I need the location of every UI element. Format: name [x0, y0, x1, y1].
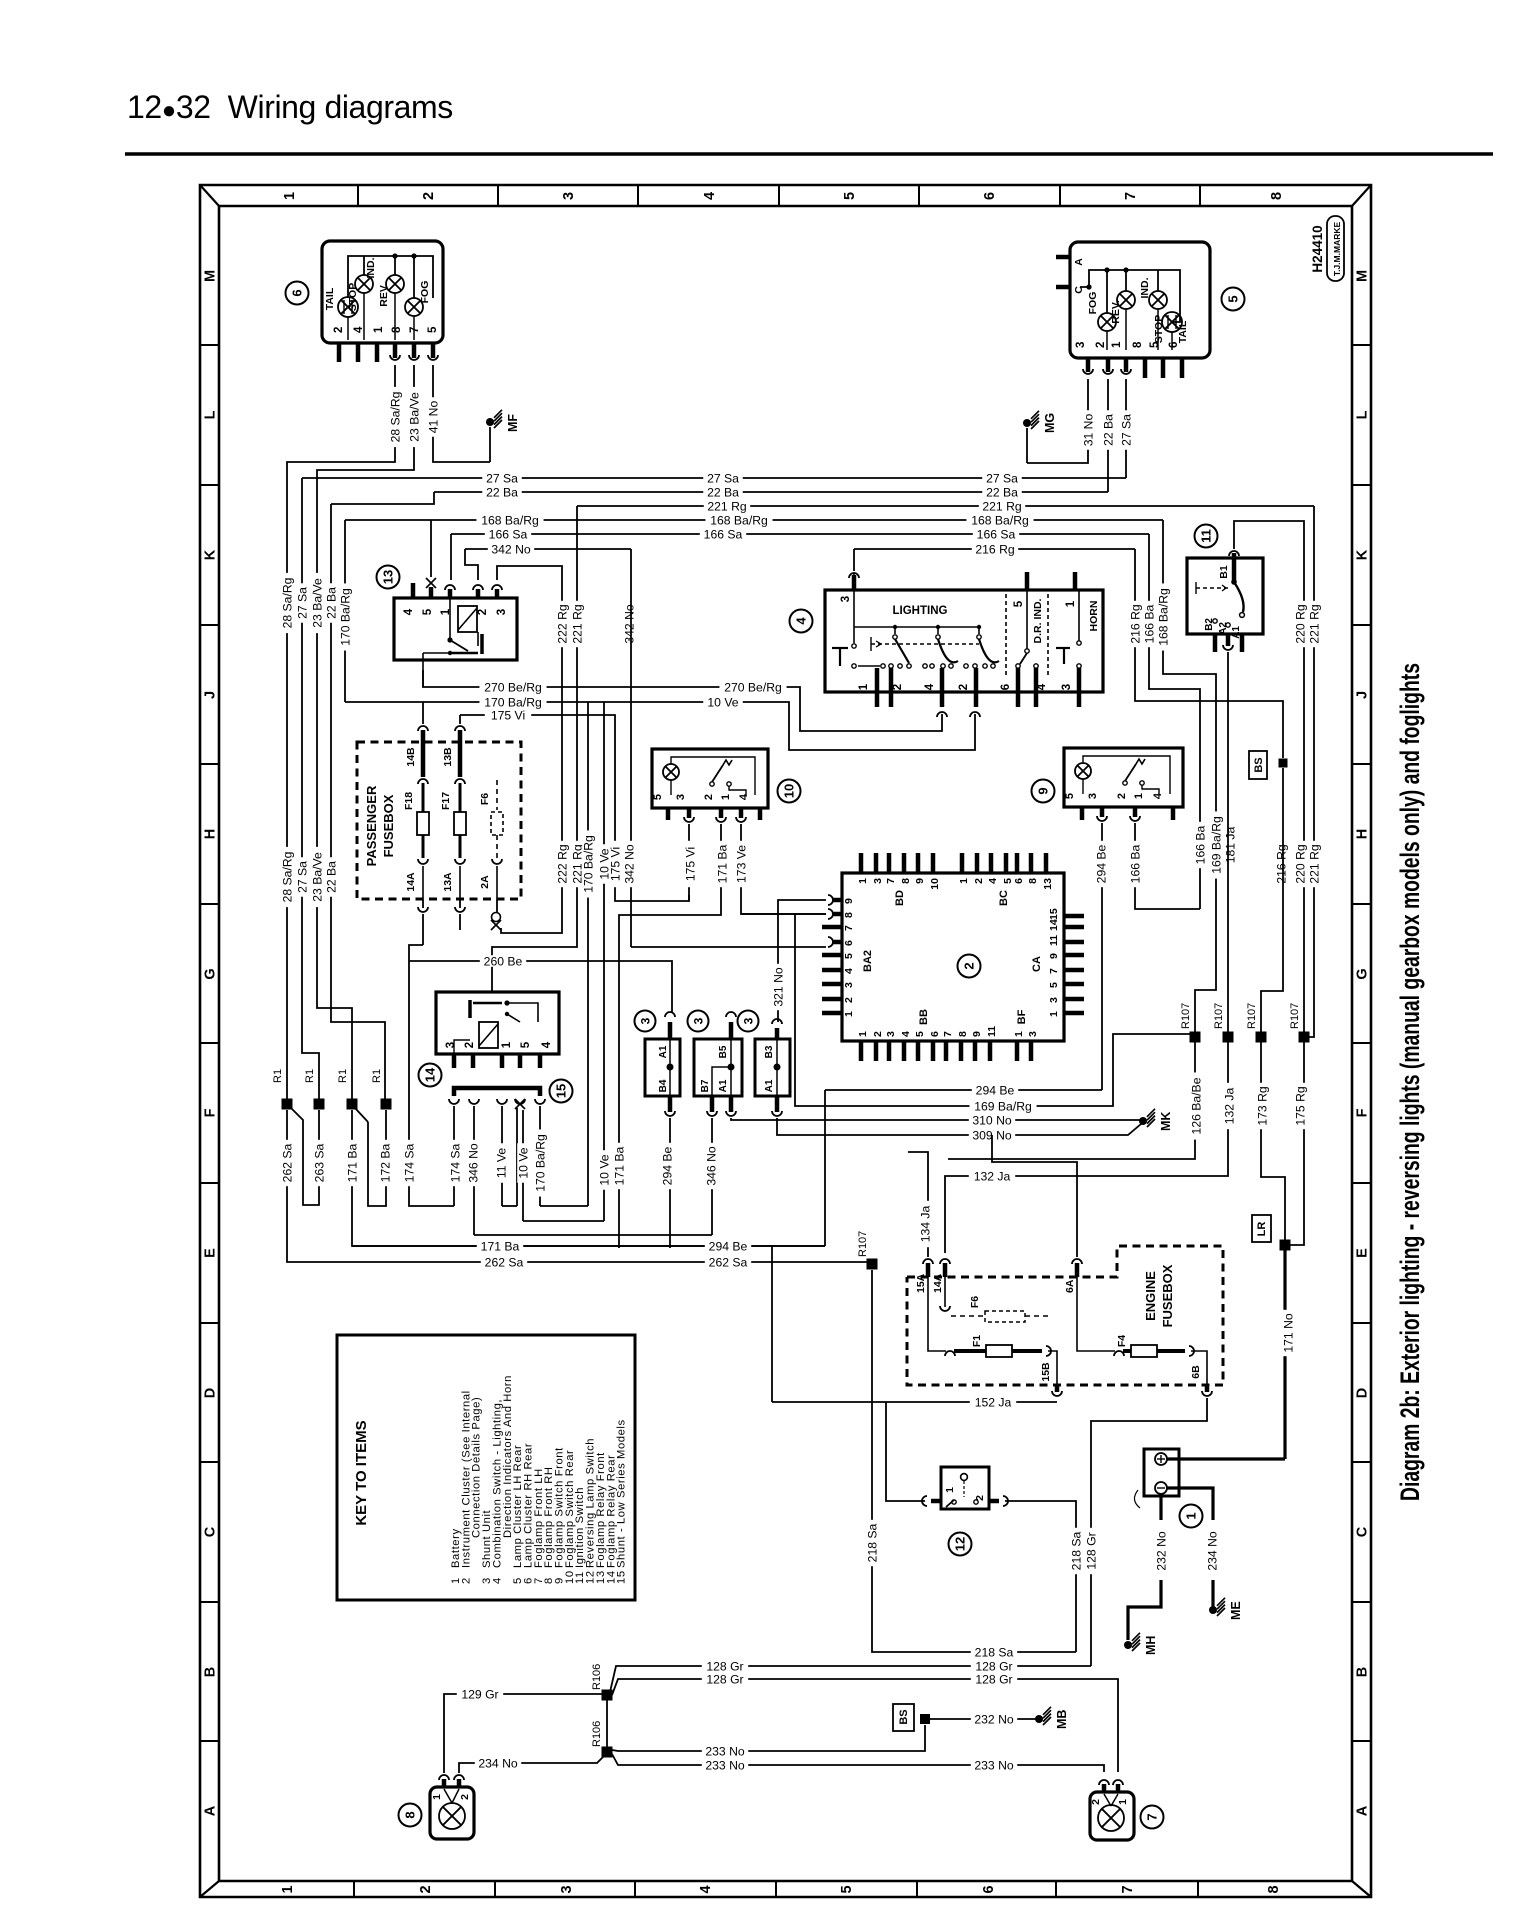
svg-text:BC: BC — [998, 890, 1010, 906]
svg-text:3: 3 — [692, 1017, 706, 1024]
left bundle labels lower — [281, 847, 293, 907]
wire 270 Be/Rg run — [423, 670, 942, 731]
svg-text:M: M — [1355, 270, 1371, 282]
item 7 pin stubs — [1102, 1784, 1107, 1792]
item 5 IND lamp — [1149, 291, 1167, 309]
R106 link wire — [606, 1697, 608, 1750]
svg-text:3: 3 — [496, 609, 508, 615]
wire 262 Sa from R1 a — [287, 1110, 872, 1262]
svg-text:169 Ba/Rg: 169 Ba/Rg — [1209, 816, 1223, 874]
svg-text:A1: A1 — [764, 1079, 775, 1092]
svg-text:B3: B3 — [764, 1045, 775, 1058]
svg-text:170 Ba/Rg: 170 Ba/Rg — [338, 588, 352, 646]
BS connector box lower — [893, 1704, 914, 1731]
svg-text:6: 6 — [982, 192, 998, 200]
svg-text:170 Ba/Rg: 170 Ba/Rg — [581, 835, 595, 893]
left bundle wire 22 Ba down — [331, 504, 385, 1100]
wire 27 Sa from item 5 pin 1 — [1125, 379, 1127, 478]
frame top scale ticks — [357, 185, 359, 206]
svg-text:BB: BB — [918, 1009, 930, 1025]
svg-text:342 No: 342 No — [491, 542, 531, 556]
wire 166 Sa run — [451, 533, 1149, 535]
svg-text:168 Ba/Rg: 168 Ba/Rg — [971, 513, 1029, 527]
svg-text:1: 1 — [958, 878, 970, 884]
svg-text:175 Vi: 175 Vi — [683, 847, 697, 881]
svg-text:STOP: STOP — [1153, 315, 1165, 343]
svg-text:22 Ba: 22 Ba — [324, 861, 338, 893]
item 1 circled number — [1180, 1505, 1203, 1528]
svg-text:MB: MB — [1055, 1710, 1069, 1729]
svg-text:2: 2 — [418, 1885, 434, 1893]
wire 232 No from battery negative stub — [1159, 1496, 1162, 1520]
svg-text:TAIL: TAIL — [1177, 320, 1189, 343]
svg-text:3: 3 — [639, 1017, 653, 1024]
wire 216 Rg run — [854, 548, 1135, 550]
svg-text:5: 5 — [422, 608, 434, 615]
item 12 pin stubs — [931, 1499, 941, 1504]
svg-text:4: 4 — [702, 192, 718, 200]
svg-text:13A: 13A — [442, 872, 454, 892]
svg-text:HORN: HORN — [1088, 601, 1100, 632]
svg-text:260 Be: 260 Be — [484, 954, 523, 968]
svg-text:3: 3 — [843, 982, 855, 988]
item 14 relay coil — [479, 1022, 498, 1048]
item 14 circled number — [419, 1064, 442, 1087]
svg-text:5: 5 — [843, 953, 855, 959]
svg-text:A: A — [203, 1805, 219, 1816]
engine fusebox 15A terminal — [926, 1263, 931, 1277]
wire 11 Ve loop — [502, 1205, 517, 1207]
svg-text:170 Ba/Rg: 170 Ba/Rg — [484, 695, 542, 709]
svg-text:221 Rg: 221 Rg — [1307, 604, 1321, 643]
svg-text:FOG: FOG — [1087, 292, 1099, 315]
engine fusebox dashed outline — [907, 1246, 1223, 1385]
svg-text:8: 8 — [957, 1031, 969, 1037]
wire 166 Ba down right side — [1149, 534, 1200, 909]
passenger fusebox dashed outline — [357, 742, 521, 899]
item 4 circled number — [790, 610, 813, 633]
svg-text:F6: F6 — [969, 1296, 981, 1308]
svg-text:T.J.M.MARKE: T.J.M.MARKE — [1332, 222, 1342, 277]
svg-text:270 Be/Rg: 270 Be/Rg — [724, 680, 782, 694]
svg-text:216 Rg: 216 Rg — [1274, 844, 1288, 883]
svg-text:4: 4 — [794, 617, 809, 625]
svg-text:4: 4 — [541, 1041, 553, 1048]
wire 128 Gr upper from R106 a — [610, 1666, 1091, 1692]
svg-text:22 Ba: 22 Ba — [1101, 414, 1115, 446]
shunt unit 3a circled number — [635, 1011, 656, 1032]
wire 234 No from battery negative — [1167, 1488, 1213, 1520]
svg-text:220 Rg: 220 Rg — [1293, 844, 1307, 883]
svg-text:2: 2 — [1095, 342, 1107, 348]
svg-text:4: 4 — [403, 608, 415, 615]
item 12 internals — [961, 1474, 968, 1481]
svg-text:342 No: 342 No — [622, 844, 636, 884]
svg-text:15: 15 — [1048, 908, 1060, 920]
svg-text:169 Ba/Rg: 169 Ba/Rg — [974, 1099, 1032, 1113]
svg-text:3: 3 — [561, 192, 577, 200]
item 6 TAIL lamp — [338, 297, 358, 317]
svg-text:129 Gr: 129 Gr — [461, 1687, 498, 1701]
svg-text:262 Sa: 262 Sa — [709, 1255, 748, 1269]
svg-text:321 No: 321 No — [771, 967, 785, 1007]
wire 263 Sa labels — [281, 1140, 293, 1186]
svg-text:FOG: FOG — [419, 281, 431, 304]
svg-text:128 Gr: 128 Gr — [975, 1659, 1012, 1673]
svg-text:3: 3 — [872, 878, 884, 884]
svg-text:233 No: 233 No — [705, 1744, 745, 1758]
svg-text:2: 2 — [974, 1495, 986, 1501]
svg-text:8: 8 — [403, 1811, 418, 1818]
svg-text:1: 1 — [858, 683, 870, 690]
svg-text:126 Ba/Be: 126 Ba/Be — [1189, 1077, 1203, 1134]
item 12 circled number — [949, 1533, 972, 1556]
item 4 dashed link — [871, 643, 979, 645]
svg-text:27 Sa: 27 Sa — [986, 471, 1018, 485]
svg-text:7: 7 — [843, 925, 855, 931]
connector R107 b — [1223, 1032, 1234, 1043]
svg-text:A1: A1 — [658, 1045, 669, 1058]
svg-text:41 No: 41 No — [426, 401, 440, 434]
wire 31 No from item 5 pin 3 — [1027, 379, 1088, 463]
svg-text:B2: B2 — [1204, 618, 1215, 631]
svg-text:IND.: IND. — [1139, 277, 1151, 298]
svg-text:13B: 13B — [442, 747, 454, 767]
svg-text:15A: 15A — [915, 1273, 927, 1293]
svg-text:220 Rg: 220 Rg — [1293, 604, 1307, 643]
svg-text:171 Ba: 171 Ba — [715, 844, 729, 883]
item 8 lamp — [439, 1803, 465, 1829]
wire 172 Ba from R1 d — [368, 1110, 386, 1206]
wire 174 Sa fusebox to relay 14 — [409, 945, 454, 1206]
wire 10 Ve loop — [523, 1220, 604, 1222]
wire 168 Ba/Rg run — [345, 519, 1163, 521]
svg-text:14: 14 — [423, 1067, 438, 1082]
svg-text:7: 7 — [942, 1031, 954, 1037]
svg-text:152 Ja: 152 Ja — [975, 1395, 1012, 1409]
svg-text:D: D — [203, 1388, 219, 1398]
shunt unit 3b body — [694, 1039, 742, 1096]
wire 342 No to BA2 pin 6 — [631, 946, 826, 948]
svg-text:310 No: 310 No — [972, 1113, 1012, 1127]
svg-text:8: 8 — [900, 878, 912, 884]
instrument cluster (item 2) body — [842, 873, 1064, 1041]
svg-text:FUSEBOX: FUSEBOX — [381, 794, 396, 857]
svg-text:171 Ba: 171 Ba — [481, 1239, 520, 1253]
item 5 pin connector arcs — [1083, 369, 1093, 374]
connector R107 c — [1256, 1032, 1267, 1043]
svg-text:R107: R107 — [1289, 1003, 1301, 1029]
svg-text:2: 2 — [872, 1031, 884, 1037]
svg-text:TAIL: TAIL — [324, 287, 336, 310]
item 13 relay coil — [458, 606, 477, 632]
svg-text:5: 5 — [1226, 295, 1241, 302]
svg-text:F: F — [203, 1108, 219, 1117]
wire 216 Rg down right side — [1135, 549, 1283, 758]
svg-text:175 Rg: 175 Rg — [1293, 1086, 1307, 1125]
svg-text:6: 6 — [929, 1031, 941, 1037]
wire 134 Ja — [908, 1152, 928, 1257]
svg-text:12: 12 — [953, 1537, 968, 1551]
item 6 pin connector arcs — [390, 355, 400, 360]
svg-text:8: 8 — [843, 912, 855, 918]
svg-text:E: E — [1355, 1248, 1371, 1258]
svg-text:11: 11 — [1048, 935, 1060, 946]
svg-text:8: 8 — [1132, 341, 1144, 348]
svg-text:C: C — [1355, 1526, 1371, 1537]
svg-text:A2: A2 — [1218, 622, 1229, 635]
svg-text:166 Ba: 166 Ba — [1128, 844, 1142, 883]
left bundle wire 170 Ba/Rg down — [344, 520, 346, 702]
item 11 dashed link — [1196, 587, 1231, 589]
svg-text:27 Sa: 27 Sa — [295, 587, 309, 619]
item 13 pin 5 crossed marker — [426, 578, 436, 588]
svg-text:9: 9 — [843, 898, 855, 904]
item 2 bottom stubs BB group — [859, 1041, 864, 1061]
svg-text:C: C — [203, 1526, 219, 1537]
engine fusebox 6A terminal — [1075, 1263, 1080, 1277]
wire 321 No from BA2 pin 9 — [778, 900, 826, 1022]
svg-text:10 Ve: 10 Ve — [516, 1147, 530, 1178]
wire 170 Ba/Rg - 10 Ve run — [345, 702, 975, 750]
svg-text:262 Sa: 262 Sa — [280, 1143, 294, 1182]
svg-text:MK: MK — [1159, 1112, 1173, 1131]
crossed connector 2A below passenger fusebox — [492, 913, 501, 922]
shunt 3b stubs — [729, 1022, 734, 1039]
svg-text:6B: 6B — [1190, 1365, 1202, 1379]
wire 126 Ba/Be from R107 a — [948, 1042, 1195, 1159]
wire 168 Ba/Rg to relay 13 pin 5 — [430, 520, 432, 577]
item 11 circled number — [1195, 525, 1218, 548]
wire 262 Sa lower labels — [481, 1256, 527, 1268]
svg-text:174 Sa: 174 Sa — [402, 1143, 416, 1182]
item 9 circled number — [1032, 780, 1055, 803]
item 14 harness connector arcs — [449, 1099, 459, 1104]
item 5 lamp leads — [1106, 331, 1108, 350]
svg-text:174 Sa: 174 Sa — [448, 1143, 462, 1182]
foglamp switch front (item 9) body — [1064, 748, 1183, 807]
svg-text:7: 7 — [1048, 968, 1060, 974]
svg-text:L: L — [1355, 410, 1371, 419]
svg-text:2: 2 — [1090, 1799, 1102, 1805]
svg-text:23 Ba/Ve: 23 Ba/Ve — [310, 852, 324, 902]
svg-text:132 Ja: 132 Ja — [1222, 1087, 1236, 1124]
wire 310 No from shunt 3b A1 — [731, 1118, 1143, 1120]
svg-text:1: 1 — [843, 1011, 855, 1017]
wire BA2 pin 8 to 173 Ve — [741, 913, 826, 915]
svg-text:6: 6 — [1013, 878, 1025, 884]
svg-text:263 Sa: 263 Sa — [312, 1143, 326, 1182]
svg-text:22 Ba: 22 Ba — [707, 485, 739, 499]
wire 181 Ja from item 11 — [1227, 652, 1229, 1032]
svg-text:10 Ve: 10 Ve — [597, 1154, 611, 1185]
lamp cluster LH rear (item 6) body — [322, 241, 443, 343]
frame left scale ticks — [200, 344, 219, 346]
svg-text:A: A — [1355, 1805, 1371, 1816]
svg-text:222 Rg: 222 Rg — [555, 844, 569, 883]
svg-text:G: G — [203, 968, 219, 979]
svg-text:R1: R1 — [337, 1069, 349, 1083]
svg-text:1: 1 — [501, 1041, 513, 1048]
svg-text:3: 3 — [675, 794, 687, 800]
wire 175 Vi run — [460, 715, 689, 901]
connector R107 a — [1190, 1032, 1201, 1043]
item 10 circled number — [778, 780, 801, 803]
connector R1 b — [314, 1099, 325, 1110]
item 10 wire labels — [684, 841, 696, 887]
item 4 bottom stubs — [875, 668, 880, 707]
svg-text:7: 7 — [1123, 192, 1139, 200]
svg-text:Diagram 2b: Exterior lighting: Diagram 2b: Exterior lighting - reversin… — [1395, 663, 1425, 1501]
svg-text:ME: ME — [1229, 1601, 1243, 1620]
svg-text:132 Ja: 132 Ja — [974, 1169, 1011, 1183]
svg-text:128 Gr: 128 Gr — [706, 1672, 743, 1686]
svg-text:J: J — [1355, 691, 1371, 699]
svg-text:J: J — [203, 691, 219, 699]
svg-text:3: 3 — [1048, 997, 1060, 1003]
item 6 FOG lamp — [405, 298, 423, 316]
item 14 harness wires — [453, 1106, 455, 1206]
svg-text:14A: 14A — [405, 872, 417, 892]
svg-text:1: 1 — [280, 1885, 296, 1893]
battery squiggle — [1134, 1490, 1140, 1508]
svg-text:216 Rg: 216 Rg — [1128, 604, 1142, 643]
svg-text:R106: R106 — [591, 1721, 603, 1747]
foglamp front LH (item 8) body — [430, 1787, 474, 1839]
svg-text:6: 6 — [843, 940, 855, 946]
svg-text:173 Ve: 173 Ve — [734, 845, 748, 883]
wire 342 No mid vertical — [630, 549, 632, 947]
svg-text:218 Sa: 218 Sa — [865, 1523, 879, 1562]
svg-text:PASSENGER: PASSENGER — [364, 785, 379, 866]
svg-text:8: 8 — [391, 326, 403, 333]
item 15 circled number — [550, 1080, 573, 1103]
item 11 switch blade — [1234, 582, 1244, 612]
wire 218 Sa from item 12 — [1005, 1501, 1076, 1652]
svg-text:4: 4 — [353, 326, 365, 333]
item 6 internal bus — [348, 256, 433, 298]
wire 171 No battery feed — [1283, 1250, 1286, 1459]
svg-text:D: D — [1355, 1388, 1371, 1398]
svg-text:8: 8 — [1269, 192, 1285, 200]
ground MF — [489, 427, 491, 462]
svg-text:234 No: 234 No — [1205, 1531, 1219, 1571]
svg-text:2: 2 — [459, 1794, 471, 1800]
frame right scale ticks — [1352, 344, 1371, 346]
svg-text:23 Ba/Ve: 23 Ba/Ve — [310, 578, 324, 628]
svg-text:5: 5 — [842, 192, 858, 200]
frame outer border — [200, 185, 1371, 1897]
wire 171 Ba from R1 c — [352, 1110, 825, 1246]
wire 342 No to relay 13 pin 2 — [465, 549, 478, 580]
svg-text:1: 1 — [857, 878, 869, 884]
svg-text:2: 2 — [703, 794, 715, 800]
shunt 3c stubs — [775, 1028, 780, 1039]
wire 346 No to shunt 3b — [474, 1234, 712, 1236]
item 2 left stubs BA2 group — [822, 953, 842, 958]
wire 342 No run — [465, 548, 631, 550]
svg-text:5: 5 — [1048, 982, 1060, 988]
svg-text:172 Ba: 172 Ba — [378, 1143, 392, 1182]
item 5 pin stubs — [1086, 358, 1091, 372]
wire 346 No from shunt 3b B7 — [711, 1118, 713, 1235]
svg-text:CA: CA — [1031, 956, 1043, 972]
fuse F18 column — [422, 702, 424, 724]
svg-text:F17: F17 — [440, 792, 452, 810]
wire 233 No lower from R106 b — [612, 1754, 1104, 1772]
svg-text:2: 2 — [333, 327, 345, 333]
svg-text:27 Sa: 27 Sa — [486, 471, 518, 485]
svg-text:MG: MG — [1043, 413, 1057, 433]
svg-text:B: B — [1355, 1667, 1371, 1677]
wire 28 Sa/Rg from item 6 pin 8 — [287, 365, 395, 1100]
svg-text:222 Rg: 222 Rg — [555, 604, 569, 643]
svg-text:3: 3 — [742, 1017, 756, 1024]
svg-text:27 Sa: 27 Sa — [1119, 414, 1133, 446]
item 9 wire labels — [1095, 841, 1107, 887]
LR junction — [1280, 1240, 1291, 1251]
foglamp relay front (item 13) body — [394, 598, 517, 660]
item 9 lamp — [1075, 763, 1091, 779]
svg-text:LIGHTING: LIGHTING — [893, 605, 948, 617]
wire labels item 5 tails — [1082, 410, 1094, 450]
svg-text:MH: MH — [1144, 1636, 1158, 1655]
svg-text:A: A — [1073, 258, 1085, 266]
svg-text:232 No: 232 No — [1154, 1531, 1168, 1571]
svg-text:221 Rg: 221 Rg — [1307, 844, 1321, 883]
svg-text:1: 1 — [1065, 600, 1077, 607]
svg-text:221 Rg: 221 Rg — [570, 604, 584, 643]
item 4 switch blades — [895, 639, 909, 663]
svg-text:171 Ba: 171 Ba — [345, 1143, 359, 1182]
fuse F4 — [1077, 1277, 1115, 1351]
svg-text:3: 3 — [885, 1031, 897, 1037]
fuse F6 dashed — [944, 1277, 946, 1307]
svg-text:F6: F6 — [479, 793, 491, 805]
engine fusebox 15B terminal — [1055, 1385, 1060, 1392]
svg-text:168 Ba/Rg: 168 Ba/Rg — [710, 513, 768, 527]
svg-text:2: 2 — [1116, 793, 1128, 799]
svg-text:173 Rg: 173 Rg — [1255, 1086, 1269, 1125]
svg-text:128 Gr: 128 Gr — [706, 1659, 743, 1673]
mid bundle verticals — [587, 702, 589, 1206]
wire 152 Ja run — [772, 1401, 1057, 1403]
svg-text:5: 5 — [520, 1041, 532, 1048]
wire BA2 pin 8 riser to shunt 3b — [825, 913, 827, 915]
svg-text:13: 13 — [1042, 878, 1054, 890]
svg-text:B1: B1 — [1218, 565, 1230, 579]
wire 221 Rg run — [577, 505, 1314, 507]
svg-text:M: M — [203, 270, 219, 282]
wire 260 Be run — [409, 961, 672, 1012]
connector R1 d — [381, 1099, 392, 1110]
item 5 input stubs A and C — [1056, 255, 1070, 260]
item 11 contacts — [1213, 619, 1217, 623]
fuse F1 — [928, 1277, 946, 1351]
svg-text:175 Vi: 175 Vi — [491, 708, 525, 722]
svg-text:22 Ba: 22 Ba — [324, 587, 338, 619]
wire 10 Ve lower label — [598, 1150, 610, 1190]
connector R106 b — [602, 1747, 613, 1758]
connector R1 a — [282, 1099, 293, 1110]
item 10 pin stubs — [666, 808, 671, 820]
wire 232 No to ground MB — [930, 1718, 1039, 1720]
battery negative terminal — [1155, 1482, 1167, 1494]
svg-text:2: 2 — [477, 609, 489, 615]
item 14 harness labels — [449, 1140, 461, 1186]
svg-text:2: 2 — [460, 1577, 472, 1584]
item 9 internal wiring — [1082, 779, 1084, 794]
